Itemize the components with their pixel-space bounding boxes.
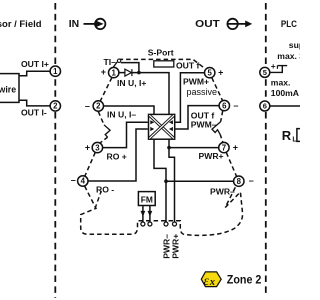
- module outline left T2-T3 notch: [98, 112, 110, 143]
- diode D1: [125, 69, 132, 76]
- svg-text:1: 1: [53, 67, 58, 76]
- label IN U, I-: [107, 110, 136, 120]
- svg-text:1: 1: [112, 68, 117, 77]
- label Zone 2: [227, 272, 262, 286]
- input symbol (arrow into circle): [84, 19, 106, 29]
- label supply (cut): [289, 40, 304, 50]
- svg-text:PLC: PLC: [281, 19, 297, 30]
- bottom socket PWR-: [164, 222, 168, 226]
- svg-text:–: –: [71, 175, 76, 185]
- svg-text:max. 3: max. 3: [277, 51, 300, 61]
- module outline left T3-T4: [85, 152, 96, 176]
- polarity + terminal 7: [233, 143, 238, 153]
- wire IN- from terminal 2 to converter: [104, 106, 155, 114]
- wire PWR- terminal 8: [166, 180, 234, 182]
- module outline plug edge T4: [95, 191, 101, 209]
- svg-text:–: –: [249, 176, 254, 186]
- svg-text:OUT: OUT: [195, 19, 220, 30]
- svg-text:RO +: RO +: [107, 152, 127, 162]
- polarity + terminal 3: [85, 143, 90, 153]
- dashed separator field/module: [54, 3, 56, 298]
- svg-text:PWR+: PWR+: [199, 151, 224, 161]
- wire OUT I+: [19, 71, 50, 76]
- svg-text:+: +: [271, 61, 276, 71]
- svg-text:+: +: [85, 143, 90, 153]
- FM wire right with arrow: [148, 206, 153, 222]
- svg-text:PWR–: PWR–: [210, 186, 235, 196]
- header label PLC: [281, 19, 297, 30]
- Ex hexagon symbol: [201, 272, 221, 288]
- dashed separator module/PLC: [265, 3, 267, 296]
- PLC terminal 6: [260, 101, 270, 111]
- svg-text:TI–: TI–: [104, 57, 117, 67]
- svg-text:ε: ε: [204, 273, 210, 288]
- transmitter box (2-wire): [0, 74, 19, 103]
- svg-text:IN: IN: [69, 19, 79, 30]
- label PWR+: [199, 151, 224, 161]
- polarity + PLC supply: [271, 61, 276, 71]
- label RO +: [107, 152, 127, 162]
- module terminal 5: [205, 68, 215, 78]
- polarity - terminal 4: [71, 175, 76, 185]
- wire OUT f PWM+ terminal 5 to converter: [175, 73, 204, 123]
- svg-text:–: –: [233, 100, 238, 110]
- svg-text:6: 6: [222, 101, 227, 110]
- label OUT I-: [21, 107, 47, 117]
- header label OUT: [195, 19, 220, 30]
- junction dot PWR+: [167, 146, 171, 150]
- PLC terminal 5: [260, 67, 270, 77]
- svg-text:IN U, I+: IN U, I+: [117, 78, 146, 88]
- svg-text:sup: sup: [289, 40, 300, 50]
- bottom socket PWR+: [173, 222, 177, 226]
- label passive: [187, 87, 218, 97]
- label 100mA: [271, 88, 299, 98]
- TI- bypass switch: [113, 59, 121, 68]
- svg-text:R: R: [282, 128, 292, 143]
- label max. 3 (cut): [277, 51, 304, 61]
- wire PWR- bus down to bottom connector: [154, 139, 166, 222]
- svg-text:–: –: [85, 101, 90, 111]
- header label IN: [69, 19, 79, 30]
- wire PLC supply: [270, 66, 288, 73]
- polarity - terminal 8: [249, 176, 254, 186]
- svg-text:OUT I-: OUT I-: [21, 107, 47, 117]
- FM socket right: [148, 222, 152, 226]
- module terminal 4: [78, 176, 88, 186]
- wire PLC load: [270, 105, 300, 107]
- label PWR+ vertical: [171, 234, 181, 259]
- svg-text:OUT f: OUT f: [176, 60, 200, 70]
- polarity + terminal 1: [101, 67, 106, 77]
- svg-text:PWM–: PWM–: [191, 120, 217, 130]
- label OUT f upper: [176, 60, 200, 70]
- module outline right T6-T7 notch: [212, 111, 223, 143]
- module terminal 6: [219, 100, 229, 110]
- module terminal 3: [92, 142, 102, 152]
- module outline bottom: [81, 186, 243, 235]
- module outline top dashed: [119, 59, 205, 68]
- FM foot module box: [138, 192, 155, 206]
- converter U1 (isolating converter box): [149, 114, 175, 139]
- wire IN+ from terminal 1 through diode to converter: [119, 73, 169, 115]
- svg-text:+: +: [233, 143, 238, 153]
- svg-text:5: 5: [263, 68, 267, 77]
- module terminal 1: [109, 67, 119, 77]
- wire RO- from terminal 4 to converter: [88, 129, 148, 181]
- svg-text:passive: passive: [187, 87, 218, 97]
- module outline right T7-T8: [226, 153, 236, 177]
- svg-text:PWM+: PWM+: [183, 77, 209, 87]
- label IN U, I+: [117, 78, 146, 88]
- junction dot PWR-: [164, 179, 168, 183]
- label TI-: [104, 57, 117, 67]
- svg-text:2: 2: [53, 102, 58, 111]
- S-Port connector: [148, 48, 174, 67]
- junction dot diode output: [137, 71, 141, 75]
- svg-text:PWR+: PWR+: [171, 234, 181, 259]
- svg-text:nsor / Field: nsor / Field: [0, 18, 42, 29]
- field terminal 2: [50, 101, 60, 111]
- svg-text:8: 8: [237, 177, 242, 186]
- svg-text:6: 6: [263, 102, 267, 111]
- module outline left T1-T2: [100, 78, 112, 102]
- wire PWR+ bus down to bottom connector: [169, 139, 175, 222]
- FM socket left: [141, 222, 145, 226]
- svg-text:OUT I+: OUT I+: [21, 59, 49, 69]
- polarity - terminal 6: [233, 100, 238, 110]
- label OUT I+: [21, 59, 49, 69]
- svg-text:Zone 2: Zone 2: [227, 272, 262, 286]
- wire OUT f PWM- terminal 6 to converter: [175, 106, 219, 129]
- svg-text:100mA: 100mA: [271, 88, 299, 98]
- label PWR- vertical: [161, 234, 171, 259]
- svg-text:+: +: [101, 67, 106, 77]
- label PWM-: [191, 120, 217, 130]
- svg-text:x: x: [209, 277, 215, 288]
- label OUT f lower: [191, 111, 215, 121]
- wire PWR+ terminal 7: [169, 147, 219, 149]
- svg-text:S-Port: S-Port: [148, 48, 174, 58]
- wire OUT I-: [19, 100, 50, 106]
- svg-text:wire: wire: [0, 85, 16, 95]
- svg-text:max.: max.: [271, 77, 291, 87]
- output symbol (circle with arrow out): [227, 19, 252, 29]
- module terminal 7: [219, 142, 229, 152]
- wire switch loop: [121, 63, 139, 72]
- label max.: [271, 77, 291, 87]
- label PWR-: [210, 186, 235, 196]
- svg-text:IN U, I–: IN U, I–: [107, 110, 136, 120]
- label RO -: [96, 184, 114, 194]
- resistor RL: [297, 129, 301, 142]
- svg-text:+: +: [218, 68, 223, 78]
- svg-text:RO -: RO -: [96, 184, 114, 194]
- wire RO+ from terminal 3 to converter: [103, 122, 148, 147]
- header label Sensor / Field: [0, 18, 42, 29]
- label RL: [282, 128, 298, 144]
- module outline right T5-T6: [212, 78, 223, 101]
- field terminal 1: [50, 66, 60, 76]
- polarity + terminal 5: [218, 68, 223, 78]
- svg-text:3: 3: [95, 143, 100, 152]
- svg-text:FM: FM: [141, 194, 153, 204]
- svg-text:4: 4: [81, 177, 86, 186]
- svg-text:2: 2: [96, 102, 101, 111]
- module terminal 8: [234, 176, 244, 186]
- label PWM+: [183, 77, 209, 87]
- polarity - terminal 2: [85, 101, 90, 111]
- module terminal 2: [93, 101, 103, 111]
- FM wire left with arrow: [141, 206, 146, 222]
